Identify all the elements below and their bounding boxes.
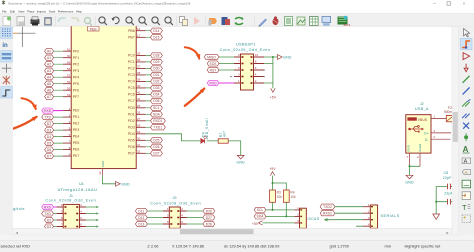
wire pins 8,2 to +5V	[264, 63, 273, 65]
J2 pin3 D+ wire	[431, 132, 451, 134]
svg-text:57: 57	[67, 73, 71, 77]
svg-text:PF4: PF4	[73, 75, 79, 79]
svg-text:A3: A3	[47, 69, 51, 73]
wire to GND flag below J2	[409, 166, 411, 175]
wire SDA to I2C connector	[266, 215, 294, 217]
wire caps common to ground	[435, 186, 437, 214]
svg-text:PF3: PF3	[73, 69, 79, 73]
svg-text:39: 39	[137, 78, 141, 82]
svg-text:gHole: gHole	[13, 207, 25, 211]
svg-text:35: 35	[137, 52, 141, 56]
wire shield join	[410, 165, 421, 167]
label RXD2	[320, 211, 335, 216]
wire PD4 to LED	[146, 134, 201, 141]
pin PC7 (pin 42) with global label D35	[136, 100, 145, 102]
svg-text:A0: A0	[47, 49, 51, 53]
I2C connector pin 3	[294, 222, 299, 224]
svg-text:D3: D3	[47, 128, 51, 132]
svg-text:T: T	[462, 205, 467, 212]
pin PE2 (pin 4) with global label D2	[63, 123, 71, 125]
svg-text:PB6: PB6	[128, 29, 135, 33]
resistor R3	[272, 183, 274, 190]
svg-text:X 129.54 Y 149.86: X 129.54 Y 149.86	[172, 244, 204, 249]
svg-text:PC5: PC5	[128, 86, 135, 90]
J1 pin 4 wire	[79, 213, 86, 215]
pin PF7 (pin 54) with global label A7	[63, 96, 71, 98]
J1 pin 6 wire	[79, 219, 86, 221]
svg-text:PF0: PF0	[73, 49, 79, 53]
svg-text:PE1: PE1	[73, 115, 80, 119]
pin PD5 (pin 30) with global label D25	[136, 139, 145, 141]
svg-text:10: 10	[255, 53, 259, 57]
stub dots pins 6,4	[263, 69, 265, 71]
capacitor C8 plates	[447, 184, 449, 190]
pin PE0 (pin 2) with global label RXD highlighted RXD net	[63, 110, 71, 112]
svg-text:Edit: Edit	[10, 10, 15, 14]
pin PF2 (pin 59) with global label A2	[63, 63, 71, 65]
ground flag after R7	[237, 155, 244, 159]
svg-text:D32: D32	[153, 80, 159, 84]
J9 pin 2 with label D26	[180, 210, 187, 212]
svg-text:View: View	[18, 10, 25, 14]
svg-text:J2: J2	[420, 102, 424, 106]
svg-text:selected net RXD: selected net RXD	[1, 245, 31, 249]
pin PC4 (pin 39) with global label D32	[136, 80, 145, 82]
pin PD7 (pin 32) with global label D27	[136, 152, 145, 154]
pin PE7 (pin 9) with global label D7	[63, 155, 71, 157]
wire pin10 to GND flag	[264, 56, 278, 58]
fuse F2	[446, 115, 454, 121]
svg-text:D4: D4	[47, 135, 51, 139]
wire LED to R7	[207, 140, 218, 142]
svg-text:R3: R3	[277, 191, 281, 195]
svg-text:PD5: PD5	[128, 138, 135, 142]
pin PD6 (pin 31) with global label D26	[136, 146, 145, 148]
svg-text:A: A	[463, 145, 469, 154]
svg-text:RXD: RXD	[44, 109, 52, 113]
svg-text:RXD1: RXD1	[153, 119, 162, 123]
svg-text:PB7: PB7	[128, 35, 135, 39]
svg-text:37: 37	[137, 65, 141, 69]
svg-text:Shield: Shield	[418, 143, 422, 151]
USB&SP1 pin 9 with label MISO	[234, 56, 241, 58]
svg-text:PD4: PD4	[128, 132, 135, 136]
svg-text:10k: 10k	[277, 195, 283, 199]
svg-text:A7: A7	[47, 95, 51, 99]
pin 22 GND of U1	[101, 169, 103, 176]
pin PF3 (pin 58) with global label A3	[63, 70, 71, 72]
LED D4	[201, 136, 208, 144]
svg-text:U1: U1	[79, 182, 84, 186]
svg-text:USB&SP1: USB&SP1	[236, 43, 256, 47]
svg-text:40: 40	[137, 84, 141, 88]
J2 pin2 D- wire	[431, 138, 451, 140]
pin PB6 (pin 16) with global label D14	[136, 30, 145, 32]
svg-text:+5V: +5V	[252, 222, 259, 226]
svg-text:PC7: PC7	[128, 99, 135, 103]
svg-text:F2: F2	[448, 106, 452, 110]
svg-text:D34: D34	[153, 93, 159, 97]
svg-text:SERIALS: SERIALS	[381, 214, 400, 218]
svg-text:PE5: PE5	[73, 141, 80, 145]
USB&SP1 pin 6 right	[254, 69, 265, 71]
svg-text:D27: D27	[206, 216, 212, 220]
connector J2 USB_A body	[406, 115, 431, 153]
svg-text:D27: D27	[153, 152, 159, 156]
svg-text:LED_Small: LED_Small	[205, 118, 209, 139]
svg-text:D11: D11	[138, 209, 144, 213]
svg-text:PD2: PD2	[128, 119, 135, 123]
pin PF0 (pin 61) with global label A0	[63, 50, 71, 52]
USB&SP1 pin 2 right	[254, 82, 265, 84]
svg-text:31: 31	[137, 143, 141, 147]
svg-text:RST: RST	[210, 68, 217, 72]
capacitor C9 plates	[447, 199, 449, 205]
wire R7 to ground	[228, 141, 241, 156]
svg-text:×: ×	[463, 1, 466, 6]
wire C8 right	[450, 185, 452, 187]
SERIALS pin 1	[363, 206, 370, 208]
svg-text:28: 28	[137, 124, 141, 128]
svg-text:File: File	[2, 10, 7, 14]
svg-text:PE2: PE2	[73, 122, 80, 126]
svg-text:Inspect: Inspect	[37, 10, 47, 14]
svg-text:PC3: PC3	[128, 73, 135, 77]
J1 pin 2 wire	[79, 206, 86, 208]
annotation arrow D to RXD label at USB&SP1	[185, 89, 205, 106]
svg-text:+5V: +5V	[269, 167, 276, 171]
wire SERIALS pin4	[356, 225, 363, 227]
svg-text:55: 55	[67, 86, 71, 90]
ground flag below J2	[406, 175, 413, 179]
annotation arrow C to SPI labels	[185, 47, 200, 58]
svg-text:Highlight specific net: Highlight specific net	[405, 244, 442, 249]
svg-text:D26: D26	[206, 209, 212, 213]
junction at +5V column	[272, 56, 274, 58]
svg-text:SCL: SCL	[153, 106, 160, 110]
pin PE6 (pin 8) with global label D6	[63, 149, 71, 151]
svg-text:D35: D35	[153, 99, 159, 103]
wire TXD2 to SERIALS	[335, 206, 363, 208]
svg-text:PE4: PE4	[73, 135, 80, 139]
svg-text:GND: GND	[236, 161, 245, 165]
svg-text:38: 38	[137, 71, 141, 75]
annotation arrow B to TXD label at U1	[10, 117, 37, 130]
svg-text:D25: D25	[153, 139, 159, 143]
SERIALS pin 3	[363, 219, 370, 221]
svg-text:C8: C8	[444, 171, 449, 175]
J1 pin 5 with label D2	[57, 219, 64, 221]
SERIALS pin 2	[363, 212, 370, 214]
svg-text:61: 61	[67, 47, 71, 51]
svg-text:A1: A1	[47, 56, 51, 60]
pin PF4 (pin 57) with global label A4	[63, 76, 71, 78]
USB&SP1 pin 7 with label SCK	[234, 63, 241, 65]
svg-text:41: 41	[137, 91, 141, 95]
svg-text:D14: D14	[153, 29, 159, 33]
J1 pin 3 with label TXD	[57, 213, 64, 215]
pin PF6 (pin 55) with global label A6	[63, 89, 71, 91]
I2C connector pin 1	[294, 209, 299, 211]
svg-text:Conn_02x08_Odd_Even: Conn_02x08_Odd_Even	[45, 199, 96, 203]
USB&SP1 pin 3 stub	[234, 76, 241, 78]
svg-text:USB_A: USB_A	[415, 107, 429, 111]
label TXD2	[320, 204, 335, 209]
svg-text:Conn_02x08_Odd_Even: Conn_02x08_Odd_Even	[150, 201, 201, 205]
svg-text:58: 58	[67, 67, 71, 71]
svg-text:TXD: TXD	[44, 115, 51, 119]
svg-text:32: 32	[137, 150, 141, 154]
SERIALS pin 4	[363, 225, 370, 227]
resistor R4	[283, 190, 289, 202]
svg-text:RXD: RXD	[209, 81, 217, 85]
svg-text:D6: D6	[47, 148, 51, 152]
svg-text:D5: D5	[47, 141, 51, 145]
svg-text:PD1: PD1	[128, 112, 135, 116]
ground flag at USB&SP1	[278, 55, 283, 60]
svg-text:GND: GND	[406, 144, 410, 152]
svg-text:Preferences: Preferences	[58, 10, 74, 14]
svg-text:R4: R4	[290, 191, 294, 195]
svg-text:PF6: PF6	[73, 88, 79, 92]
svg-text:PD0: PD0	[128, 106, 135, 110]
USB&SP1 pin 8 right	[254, 63, 265, 65]
J1 pin 7 with label D3	[57, 226, 64, 228]
pin PD0 (pin 25) with global label SCL	[136, 107, 145, 109]
svg-text:SDA: SDA	[257, 215, 265, 219]
svg-text:◂: ◂	[16, 230, 18, 235]
wire C9 left	[436, 201, 447, 203]
power +5V below USB&SP1	[272, 83, 274, 88]
svg-text:Tools: Tools	[49, 10, 56, 14]
svg-text:PEN: PEN	[90, 27, 97, 31]
svg-text:10k: 10k	[290, 195, 296, 199]
J9 pin 1 with label D11	[163, 210, 170, 212]
svg-text:36: 36	[137, 58, 141, 62]
svg-text:PE7: PE7	[73, 154, 80, 158]
svg-text:PE3: PE3	[73, 128, 80, 132]
svg-text:D+: D+	[424, 131, 428, 135]
svg-text:TXD2: TXD2	[323, 205, 332, 209]
pin PC3 (pin 38) with global label D31	[136, 74, 145, 76]
I2C connector pin 2	[294, 215, 299, 217]
svg-text:Help: Help	[76, 10, 82, 14]
svg-text:GND: GND	[121, 182, 130, 186]
svg-text:D28: D28	[153, 54, 159, 58]
svg-text:+5V: +5V	[270, 96, 277, 100]
pin PC6 (pin 41) with global label D34	[136, 93, 145, 95]
svg-text:SDA: SDA	[153, 113, 161, 117]
svg-text:D33: D33	[153, 86, 159, 90]
J2 GND pins down	[409, 153, 411, 166]
pin PE5 (pin 7) with global label D5	[63, 142, 71, 144]
svg-text:PF1: PF1	[73, 56, 79, 60]
svg-text:D2: D2	[47, 218, 51, 222]
svg-text:26: 26	[137, 111, 141, 115]
wire U1 GND to flag	[102, 175, 115, 184]
svg-text:Z 2.06: Z 2.06	[147, 244, 158, 249]
svg-text:D7: D7	[47, 154, 51, 158]
svg-text:D12: D12	[138, 216, 144, 220]
wire SCL to I2C connector	[266, 209, 294, 211]
USB&SP1 pin 4 right	[254, 76, 265, 78]
pin PB7 (pin 17) with global label D15	[136, 36, 145, 38]
ground triangle below caps	[433, 214, 440, 219]
svg-text:PF7: PF7	[73, 95, 79, 99]
svg-text:PE6: PE6	[73, 148, 80, 152]
svg-text:A4: A4	[47, 75, 51, 79]
svg-text:GND: GND	[101, 161, 105, 167]
junction +5V to R3 R4	[272, 182, 274, 184]
J9 pin 6 with label D28	[180, 223, 187, 225]
svg-text:PF2: PF2	[73, 62, 79, 66]
pin PF1 (pin 60) with global label A1	[63, 57, 71, 59]
svg-text:54: 54	[67, 93, 71, 97]
label SCL	[254, 207, 266, 212]
svg-text:J9: J9	[172, 196, 176, 200]
wire with arrow to SERIALS pin3	[326, 219, 364, 221]
wire C9 right	[450, 201, 452, 203]
svg-text:in: in	[2, 43, 8, 49]
svg-text:dx 129.54 dy 149.86 dist 198.0: dx 129.54 dy 149.86 dist 198.09	[224, 244, 279, 249]
svg-text:PD7: PD7	[128, 151, 135, 155]
svg-text:GND: GND	[283, 56, 292, 60]
svg-text:PC2: PC2	[128, 67, 135, 71]
svg-text:PF5: PF5	[73, 82, 79, 86]
svg-text:30: 30	[137, 137, 141, 141]
connector J1 Conn_02x08 body	[63, 204, 79, 228]
svg-text:RXD2: RXD2	[323, 211, 332, 215]
svg-text:D15: D15	[153, 36, 159, 40]
svg-text:D31: D31	[153, 73, 159, 77]
svg-text:TXD1: TXD1	[154, 126, 163, 130]
label SDA	[254, 214, 266, 219]
svg-text:SCK: SCK	[210, 62, 218, 66]
pin PE4 (pin 6) with global label D4	[63, 136, 71, 138]
J1 pin 1 with label RXD highlighted RXD net	[57, 206, 64, 208]
svg-text:59: 59	[67, 60, 71, 64]
pin PC0 (pin 35) with global label D28	[136, 54, 145, 56]
svg-text:PD3: PD3	[128, 125, 135, 129]
svg-text:D28: D28	[206, 222, 212, 226]
pin PF5 (pin 56) with global label A5	[63, 83, 71, 85]
J9 pin 5 with label D13	[163, 223, 170, 225]
svg-text:22pF: 22pF	[444, 191, 453, 195]
svg-text:MISO: MISO	[207, 55, 216, 59]
svg-text:Eeschema — arduino_mega128.sch: Eeschema — arduino_mega128.sch [/] — C:\…	[9, 2, 191, 6]
wire R4 to SDA net	[285, 202, 287, 216]
svg-text:RXD: RXD	[44, 205, 52, 209]
J9 pin 3 with label D12	[163, 217, 170, 219]
connector USB&SP1 Conn_02x05 body	[241, 54, 254, 90]
USB icon inside J2	[408, 126, 424, 133]
wire to R4 top	[273, 183, 287, 190]
svg-text:VBUS: VBUS	[418, 118, 428, 122]
svg-text:BACK: BACK	[344, 24, 351, 27]
svg-text:4k7: 4k7	[222, 131, 226, 137]
svg-text:PC1: PC1	[128, 60, 135, 64]
pin PD4 (pin 29) wire to LED D4	[136, 133, 145, 135]
svg-text:PC4: PC4	[128, 80, 135, 84]
svg-text:D3: D3	[47, 225, 51, 229]
svg-text:56: 56	[67, 80, 71, 84]
label PEN cut at canvas top	[88, 26, 100, 31]
svg-text:A5: A5	[47, 82, 51, 86]
resistor R7	[218, 139, 228, 143]
svg-text:GND: GND	[405, 181, 414, 185]
USB&SP1 pin 5 with label RST	[234, 69, 241, 71]
svg-text:ATmega128-16AU: ATmega128-16AU	[58, 187, 98, 192]
svg-text:SCL: SCL	[257, 208, 264, 212]
svg-text:29: 29	[137, 130, 141, 134]
svg-text:22pF: 22pF	[443, 176, 452, 180]
svg-text:D13: D13	[138, 222, 144, 226]
J1 pin 8 wire	[79, 226, 86, 228]
USB&SP1 pin 10 right	[254, 56, 265, 58]
svg-text:A6: A6	[47, 88, 51, 92]
svg-text:J1: J1	[69, 194, 73, 198]
svg-text:25: 25	[137, 104, 141, 108]
svg-text:PE0: PE0	[73, 109, 80, 113]
pin PD2 (pin 27) with global label RXD1	[136, 120, 145, 122]
connector I2C body	[300, 208, 307, 228]
J9 pin 4 with label D27	[180, 217, 187, 219]
pin PD3 (pin 28) with global label TXD1	[136, 126, 145, 128]
ground flag at U1	[116, 181, 121, 186]
J2 pin1 VBUS wire with fuse F2	[431, 118, 452, 120]
pin PC2 (pin 37) with global label D30	[136, 67, 145, 69]
wire C8 left	[436, 185, 447, 187]
svg-text:TXD: TXD	[44, 212, 51, 216]
svg-text:mm: mm	[385, 244, 391, 249]
svg-text:–: –	[433, 1, 436, 7]
connector J9 Conn_02x08 body	[169, 207, 180, 228]
svg-text:17: 17	[137, 34, 141, 38]
connector SERIALS body	[370, 205, 377, 228]
svg-text:PC6: PC6	[128, 93, 135, 97]
svg-text:60: 60	[67, 54, 71, 58]
svg-text:D26: D26	[153, 145, 159, 149]
IC U1 ATmega128 body	[71, 25, 136, 169]
svg-text:A2: A2	[47, 62, 51, 66]
svg-text:22: 22	[98, 171, 102, 175]
cursor crosshair	[13, 32, 18, 34]
svg-text:16: 16	[137, 27, 141, 31]
svg-text:I2C&S: I2C&S	[308, 217, 320, 221]
svg-text:Conn_02x05_Odd_Even: Conn_02x05_Odd_Even	[220, 48, 271, 52]
svg-text:D-: D-	[425, 138, 428, 142]
svg-text:grid 1.2700: grid 1.2700	[330, 244, 350, 249]
svg-text:A: A	[464, 159, 468, 165]
pin VBUS of J2	[407, 117, 416, 120]
svg-text:D29: D29	[153, 60, 159, 64]
svg-text:▸: ▸	[447, 230, 449, 235]
svg-text:PD6: PD6	[128, 145, 135, 149]
pin PC5 (pin 40) with global label D33	[136, 87, 145, 89]
pin PE1 (pin 3) with global label TXD	[63, 116, 71, 118]
svg-text:27: 27	[137, 117, 141, 121]
svg-text:Place: Place	[27, 10, 35, 14]
pin PC1 (pin 36) with global label D29	[136, 61, 145, 63]
svg-text:D2: D2	[47, 122, 51, 126]
pin PE3 (pin 5) with global label D3	[63, 129, 71, 131]
wire RXD2 to SERIALS	[335, 212, 363, 214]
pin PD1 (pin 26) with global label SDA	[136, 113, 145, 115]
svg-text:42: 42	[137, 97, 141, 101]
svg-text:D30: D30	[153, 67, 159, 71]
annotation arrow A to RXD label at U1	[22, 98, 36, 109]
wire R3 to SCL net	[272, 202, 274, 210]
